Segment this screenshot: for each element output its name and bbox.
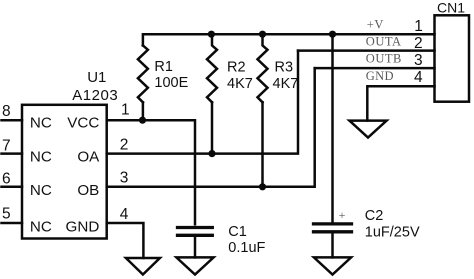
svg-text:+: + <box>339 208 346 222</box>
node dot R3/OB <box>259 183 266 190</box>
wire R3 bottom to OB row <box>261 102 264 187</box>
svg-text:R1: R1 <box>154 59 173 75</box>
svg-text:1: 1 <box>414 18 423 35</box>
ground under C2 <box>314 257 351 274</box>
node dot R2 top <box>208 31 215 38</box>
wire pin 8 stub <box>2 119 23 122</box>
svg-text:OUTB: OUTB <box>366 51 402 65</box>
svg-text:GND: GND <box>366 69 394 83</box>
IC U1 box <box>22 105 107 239</box>
ground under C1 <box>176 257 213 274</box>
svg-text:OA: OA <box>77 149 100 166</box>
svg-text:4K7: 4K7 <box>273 76 299 92</box>
svg-text:7: 7 <box>2 137 11 154</box>
svg-text:U1: U1 <box>87 69 106 86</box>
svg-text:0.1uF: 0.1uF <box>228 240 265 256</box>
svg-text:NC: NC <box>30 115 52 132</box>
wire pin4 row to ground <box>107 223 144 258</box>
svg-text:R2: R2 <box>227 60 246 76</box>
wire R2 bottom to OA row <box>211 102 214 153</box>
resistor R1 <box>138 45 148 102</box>
capacitor C2 <box>314 222 352 225</box>
svg-text:OUTA: OUTA <box>366 34 402 48</box>
wire C2 from +V rail <box>331 34 334 222</box>
node dot R2/OA <box>208 150 215 157</box>
wire +V top rail <box>143 34 435 45</box>
svg-text:A1203: A1203 <box>72 87 118 104</box>
resistor R3 <box>258 34 268 102</box>
svg-text:4: 4 <box>414 69 423 86</box>
svg-text:3: 3 <box>414 52 423 69</box>
wire pin 5 stub <box>2 222 23 225</box>
node dot R1/VCC <box>139 117 146 124</box>
svg-text:6: 6 <box>2 170 11 187</box>
connector CN1 box <box>435 15 470 101</box>
svg-text:1uF/25V: 1uF/25V <box>365 225 420 241</box>
wire C2 bottom to ground <box>331 233 334 257</box>
svg-text:4: 4 <box>120 206 129 223</box>
svg-text:NC: NC <box>30 219 52 236</box>
svg-text:CN1: CN1 <box>437 0 465 16</box>
wire R1 bottom to VCC row <box>142 102 145 120</box>
ground under CN1 <box>349 121 386 138</box>
wire pin 7 stub <box>2 152 23 155</box>
svg-text:1: 1 <box>121 102 130 119</box>
wire VCC row pin1 to C1 <box>107 120 195 224</box>
svg-text:2: 2 <box>414 35 423 52</box>
wire OB row pin3 to OUTB riser <box>107 68 315 187</box>
svg-text:NC: NC <box>30 182 52 199</box>
svg-text:5: 5 <box>2 206 11 223</box>
svg-text:8: 8 <box>2 103 11 120</box>
wire pin 6 stub <box>2 186 23 189</box>
wire C1 bottom to ground <box>194 237 197 258</box>
svg-text:GND: GND <box>66 219 100 236</box>
svg-text:C2: C2 <box>365 208 384 224</box>
svg-text:C1: C1 <box>228 224 247 240</box>
capacitor C1 <box>178 226 213 229</box>
svg-text:VCC: VCC <box>67 115 99 132</box>
svg-text:R3: R3 <box>275 60 294 76</box>
svg-text:2: 2 <box>120 136 129 153</box>
wire OUTA horizontal to CN1 <box>298 49 435 52</box>
svg-text:4K7: 4K7 <box>227 76 253 92</box>
resistor R2 <box>207 34 217 102</box>
svg-text:100E: 100E <box>154 75 188 91</box>
wire OUTB horizontal to CN1 <box>315 67 435 70</box>
svg-text:OB: OB <box>77 182 99 199</box>
node dot C2 top <box>329 31 336 38</box>
ground under IC pin4 <box>126 258 160 275</box>
svg-text:3: 3 <box>120 170 129 187</box>
node dot R3 top <box>259 31 266 38</box>
wire OA row pin2 to OUTA riser <box>107 51 298 154</box>
wire CN1 pin4 GND to ground <box>367 86 434 120</box>
svg-text:+V: +V <box>367 17 384 31</box>
svg-text:NC: NC <box>30 149 52 166</box>
